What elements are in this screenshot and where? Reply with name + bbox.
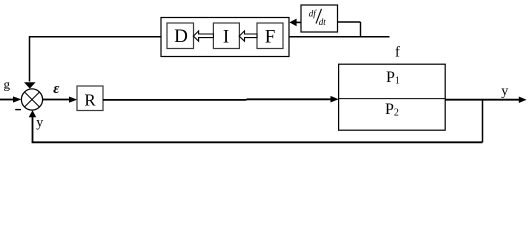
block F [257,23,283,49]
wire R to P [103,96,339,103]
open arrow F to I [239,31,257,41]
svg-text:D: D [174,26,188,47]
svg-text:g: g [4,77,11,92]
wire dfdt input vertical [360,22,362,37]
svg-text:y: y [501,84,508,99]
svg-text:f: f [395,44,400,60]
block I [213,23,239,49]
block P plant [339,64,446,130]
block D [167,23,194,49]
block R [77,86,103,111]
svg-text:F: F [265,27,276,48]
wire sum to R [43,97,78,103]
DIF outer box [161,18,289,57]
wire dfdt input horizontal top [338,21,361,23]
svg-text:R: R [84,90,96,109]
wire DIF to sum horizontal [29,36,161,38]
wire feedback tap vertical [482,100,484,143]
svg-text:dt: dt [319,17,327,27]
wire output y [445,97,526,104]
wire DIF to sum vertical [24,36,36,89]
wire feedback bottom [32,141,483,143]
block df/dt [301,5,338,32]
arrow dfdt to DIF [289,19,301,27]
summing junction [21,89,42,110]
minus sign [15,109,21,111]
svg-text:I: I [223,27,229,48]
wire input g [0,96,21,102]
svg-text:y: y [36,116,43,131]
wire f tap horizontal [289,36,390,38]
svg-text:ε: ε [53,81,60,97]
open arrow I to D [193,31,213,41]
wire feedback left vertical [29,110,37,143]
